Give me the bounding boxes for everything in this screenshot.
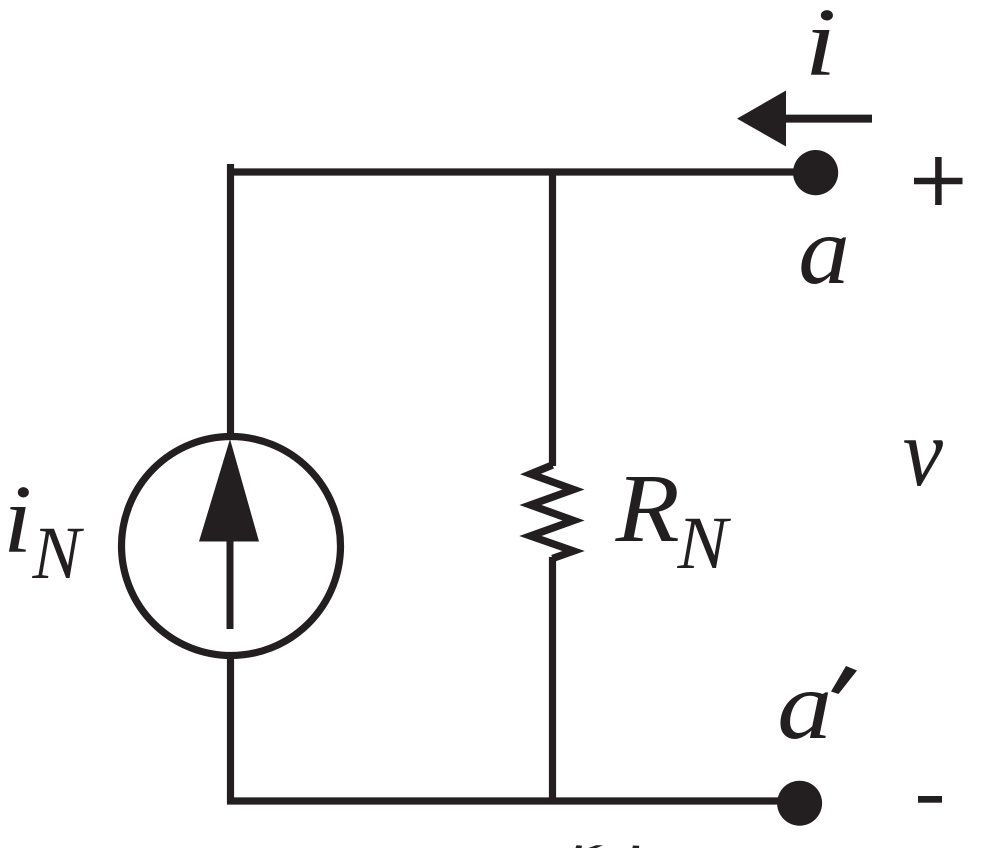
svg-text:a: a — [798, 197, 850, 305]
svg-text:N: N — [32, 512, 85, 595]
svg-text:v: v — [903, 399, 944, 507]
svg-text:a: a — [777, 652, 832, 760]
wire left vertical lower segment (current source bottom to corner) — [227, 656, 234, 805]
svg-text:R: R — [615, 455, 680, 563]
node a' terminal dot — [777, 781, 822, 826]
svg-text:i: i — [805, 0, 837, 97]
wire top horizontal from left corner to terminal a — [227, 168, 812, 175]
current source iN circle — [122, 437, 341, 656]
current source arrowhead — [199, 439, 259, 542]
current i arrow shaft — [783, 115, 872, 123]
caption (b) partially visible at bottom edge — [576, 845, 640, 848]
svg-text:i: i — [3, 466, 32, 574]
label plus sign (voltage polarity +) — [914, 157, 963, 205]
prime mark of a' — [831, 666, 857, 694]
wire resistor top lead — [549, 169, 556, 467]
wire left vertical upper segment (corner to current source top) — [227, 164, 234, 436]
resistor RN zigzag — [531, 465, 574, 559]
wire bottom horizontal from left corner to terminal a' — [227, 797, 797, 804]
label minus sign (voltage polarity -) — [918, 796, 942, 803]
wire resistor bottom lead — [549, 557, 556, 805]
svg-text:N: N — [677, 502, 732, 585]
current source arrow shaft — [227, 540, 234, 629]
current i arrowhead — [737, 91, 786, 147]
node a terminal dot — [793, 150, 838, 195]
